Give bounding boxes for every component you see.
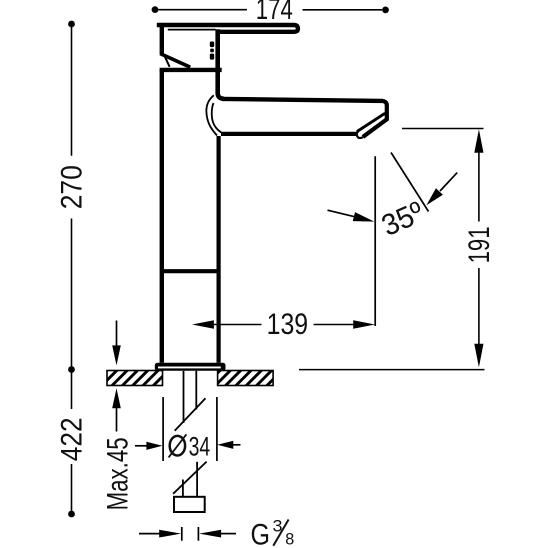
Max.45 upper arrow	[116, 321, 118, 347]
dimension 270/422 top dot	[68, 21, 75, 28]
dimension O34 right extension line	[216, 397, 218, 461]
base plate	[155, 363, 226, 371]
svg-text:191: 191	[463, 226, 496, 263]
dimension 270 line lower segment	[71, 219, 73, 370]
body seam line	[162, 269, 219, 273]
handle lower diagonal thin	[164, 55, 170, 67]
supply pipe left lower	[182, 480, 184, 498]
body right edge	[217, 136, 221, 363]
dimension 270 line upper segment	[71, 26, 73, 156]
dimension G3/8 left arrow	[139, 533, 160, 535]
faucet lever top edge	[157, 25, 298, 32]
svg-text:8: 8	[285, 530, 294, 548]
spout neck fillet inner curve	[212, 103, 222, 133]
angle reference vertical line	[374, 156, 376, 326]
svg-text:Max.45: Max.45	[102, 437, 135, 510]
supply pipe left upper	[183, 371, 185, 423]
spout outlet face lower end	[357, 131, 363, 138]
cartridge housing right edge	[218, 29, 224, 99]
spout tip outline	[363, 101, 387, 137]
dimension 139 right arrow	[314, 324, 355, 326]
svg-text:G: G	[251, 519, 271, 548]
dimension 174 left dot	[152, 6, 159, 13]
connector nut rectangle	[174, 497, 205, 512]
dimension O34 right arrow	[217, 441, 233, 449]
svg-text:422: 422	[56, 417, 89, 461]
dimension 191 upper arrow	[474, 129, 483, 153]
dimension 191 top extension line	[402, 128, 484, 130]
svg-text:34: 34	[189, 431, 211, 461]
spout neck fillet outer curve	[206, 95, 217, 135]
svg-text:139: 139	[267, 308, 309, 341]
dimension 174 line right segment	[303, 9, 383, 11]
dimension 191 lower arrow	[478, 268, 480, 346]
dimension O34 left arrow	[135, 445, 148, 447]
spout outlet face inner edge	[358, 114, 384, 131]
angle reference diagonal line	[391, 153, 429, 212]
dimension O34 left extension line	[162, 397, 164, 461]
angle arrow right	[440, 173, 457, 191]
svg-text:174: 174	[256, 0, 293, 26]
Max.45 lower arrow	[112, 388, 121, 408]
spout top edge	[222, 99, 382, 101]
dimension 191 bottom extension line	[299, 369, 485, 371]
handle lower diagonal thick	[160, 54, 190, 68]
spout bottom edge	[221, 132, 358, 136]
countertop hatch left	[107, 371, 163, 386]
handle logo mark	[210, 42, 214, 60]
countertop hatch right	[218, 371, 274, 386]
dimension 139 left arrow	[192, 320, 214, 329]
dimension 422 line upper segment	[71, 370, 73, 410]
dimension G3/8 left tick	[181, 527, 183, 541]
angle arrow left	[328, 210, 355, 217]
handle bottom bar	[160, 68, 222, 72]
dimension O34 label	[170, 436, 185, 456]
dimension 422 line lower segment	[71, 464, 73, 514]
supply pipe right upper	[195, 371, 197, 410]
pipe break diagonal lower	[173, 462, 207, 494]
dimension 174 right dot	[382, 6, 389, 13]
dimension 174 line left segment	[159, 9, 248, 11]
supply pipe right lower	[196, 462, 198, 497]
dimension 270/422 middle dot	[68, 366, 75, 373]
faucet lever underside thin edge	[168, 29, 216, 31]
pipe break diagonal upper	[175, 398, 206, 430]
dimension G3/8 right arrow	[199, 530, 221, 538]
body left edge	[160, 70, 164, 363]
handle left edge	[160, 23, 164, 55]
dimension G3/8 right tick	[197, 527, 199, 541]
dimension 422 bottom dot	[68, 511, 75, 518]
svg-text:270: 270	[55, 165, 88, 209]
